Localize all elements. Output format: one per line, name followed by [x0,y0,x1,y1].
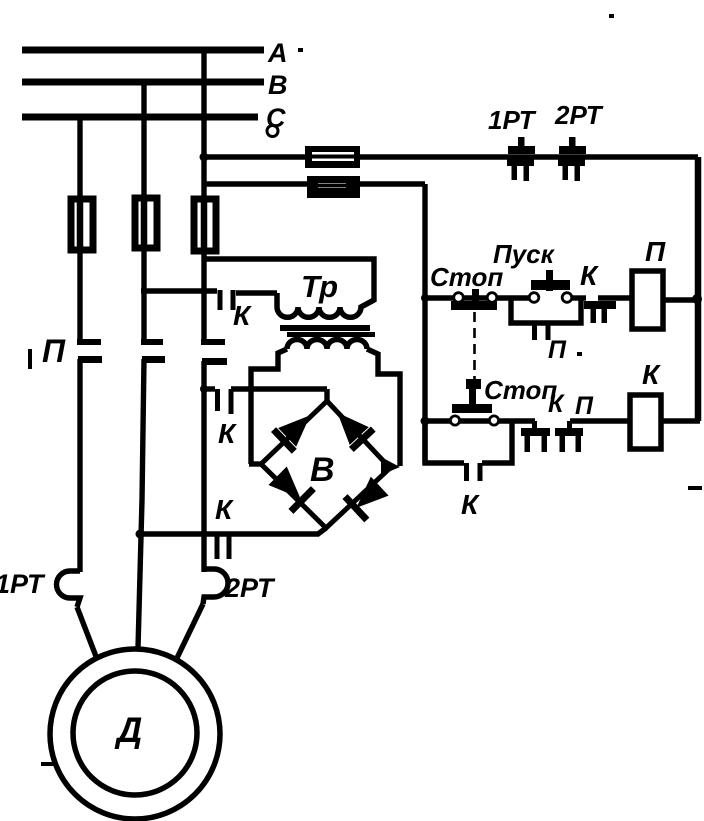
svg-text:1РТ: 1РТ [0,569,46,599]
contactor contact P pole 3 [201,339,225,345]
wire heater2 to motor [177,604,203,658]
motor M outer circle [50,649,220,819]
wire below fuse F3 [201,251,206,344]
wire below fuse F2 [141,248,146,344]
transformer secondary winding [287,340,367,350]
coil K [630,395,661,449]
contact K bottom branch [215,536,220,559]
artifact dash left of motor [41,762,57,766]
junction bottom branch at pole2 [136,530,145,539]
fuse F2 [135,198,157,248]
wire heater1 to motor [77,607,97,659]
svg-text:П: П [42,333,66,369]
motor M inner circle [73,671,197,795]
svg-text:Пуск: Пуск [493,239,556,269]
diode bottom-right [342,474,390,522]
diode bottom-left [266,464,316,513]
wire drop from phase A [201,50,206,199]
wire phase rail B [22,79,264,86]
contact P self-hold bypass [511,298,581,323]
wire transformer top branch [204,259,374,307]
wire bridge left stub [249,461,262,466]
pushbutton Pusk [529,293,539,303]
svg-text:Д: Д [114,711,142,750]
svg-text:Стоп: Стоп [484,375,557,405]
transformer Tr primary winding [277,293,374,317]
wire control row 1 [425,295,454,300]
wire bridge bottom branch [137,528,326,534]
svg-text:К: К [642,359,661,390]
wire phase rail A [22,47,264,54]
wire control feed 1 left [204,154,305,159]
wire control feed 2 left [204,181,307,186]
svg-text:П: П [645,236,666,267]
svg-text:В: В [268,70,288,100]
rectifier bridge diamond [261,401,390,528]
fuse F3 [194,199,216,251]
wire drop from phase B [141,82,146,198]
wire pole2 lower [138,359,144,648]
wire control feed 2 right [360,181,425,186]
svg-text:К: К [215,494,234,525]
wire bridge top stub [324,389,329,403]
svg-text:П: П [548,336,567,364]
contact K transformer primary [141,288,217,293]
wire bridge right stub with arrow [381,457,400,475]
diode top-left [271,404,321,453]
fuse F1 [71,199,93,250]
artifact dot right of A [298,48,303,52]
transformer core bars [280,325,370,331]
svg-text:2РТ: 2РТ [224,573,276,603]
wire secondary left lead [251,349,287,464]
thermal contact 2RT [558,137,586,181]
junction feed1 at drop A [200,153,209,162]
svg-text:К: К [233,300,252,331]
wire coil K to right edge [661,418,700,423]
wire drop from phase C [77,117,82,199]
svg-text:2РТ: 2РТ [554,100,604,130]
thermal heater 2RT [203,569,228,604]
artifact dot top right [609,14,614,18]
thermal contact 1RT [507,137,535,181]
artifact small circle [267,126,278,137]
wire secondary right lead [367,349,400,466]
contact K row1 [584,301,616,309]
artifact tick left edge [28,349,32,369]
wire right edge vertical [695,157,702,421]
artifact dot below P [577,352,582,356]
wire bridge top branch with contact K [204,386,215,391]
junction row1 left [421,294,429,302]
svg-text:К: К [461,489,480,520]
wire pole1 lower [77,359,82,572]
svg-text:П: П [575,392,594,420]
svg-text:В: В [310,451,335,489]
svg-text:Тр: Тр [301,269,338,304]
wire coil P to right edge [663,297,700,302]
fuse F4 control [305,146,360,168]
contact K row2 [532,421,537,432]
artifact dash right edge [688,486,702,490]
svg-text:К: К [580,260,599,291]
wire phase rail C [22,114,258,121]
wire control left vertical [422,184,427,462]
svg-text:К: К [548,390,565,418]
junction bridge branch at pole3 [200,385,208,393]
svg-text:К: К [218,418,237,449]
pushbutton Stop lower [466,379,481,389]
contactor contact P pole 2 [141,339,163,345]
diode top-right [326,402,375,452]
wire below fuse F1 [77,250,82,344]
junction row2 left [421,417,430,426]
thermal heater 1RT [57,571,80,607]
wire control row 2 [425,418,450,423]
contact P row2 [567,421,572,432]
svg-text:А: А [267,38,288,68]
fuse F5 control [307,176,360,198]
contactor contact P pole 1 [77,339,101,345]
mechanical link dashed [473,312,476,380]
pushbutton Stop upper [454,293,464,303]
coil P [632,271,663,329]
contact K bypass row2 [425,421,464,463]
wire control feed 1 right [360,154,698,159]
wire pole3 lower [201,361,206,572]
svg-text:1РТ: 1РТ [488,105,537,135]
